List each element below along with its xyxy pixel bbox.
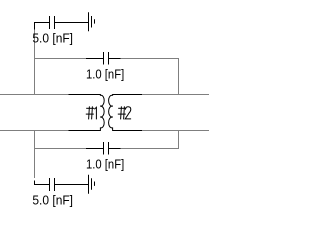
ground bbox=[89, 175, 95, 194]
wire bbox=[0, 94, 69, 96]
wire bbox=[35, 58, 87, 60]
svg-text:5.0 [nF]: 5.0 [nF] bbox=[32, 192, 73, 207]
capacitor C2 bbox=[86, 52, 121, 65]
wire bbox=[0, 130, 69, 132]
ground bbox=[89, 12, 95, 31]
capacitor C4 bbox=[35, 178, 89, 191]
wire bbox=[34, 29, 36, 96]
capacitor C3 bbox=[86, 142, 121, 155]
wire bbox=[34, 130, 36, 178]
transformer T1 winding 2 bbox=[109, 95, 142, 131]
capacitor C1 bbox=[35, 16, 89, 30]
svg-text:1.0 [nF]: 1.0 [nF] bbox=[86, 66, 124, 81]
wire bbox=[121, 148, 179, 150]
wire bbox=[35, 148, 87, 150]
wire bbox=[178, 130, 180, 149]
transformer T1 winding 1 bbox=[69, 95, 105, 131]
winding label #2 bbox=[118, 106, 131, 119]
svg-text:1.0 [nF]: 1.0 [nF] bbox=[86, 157, 124, 172]
svg-text:5.0 [nF]: 5.0 [nF] bbox=[32, 30, 73, 45]
winding label #1 bbox=[86, 106, 97, 119]
wire bbox=[178, 58, 180, 95]
wire bbox=[142, 130, 209, 132]
wire bbox=[142, 94, 209, 96]
wire bbox=[121, 58, 179, 60]
